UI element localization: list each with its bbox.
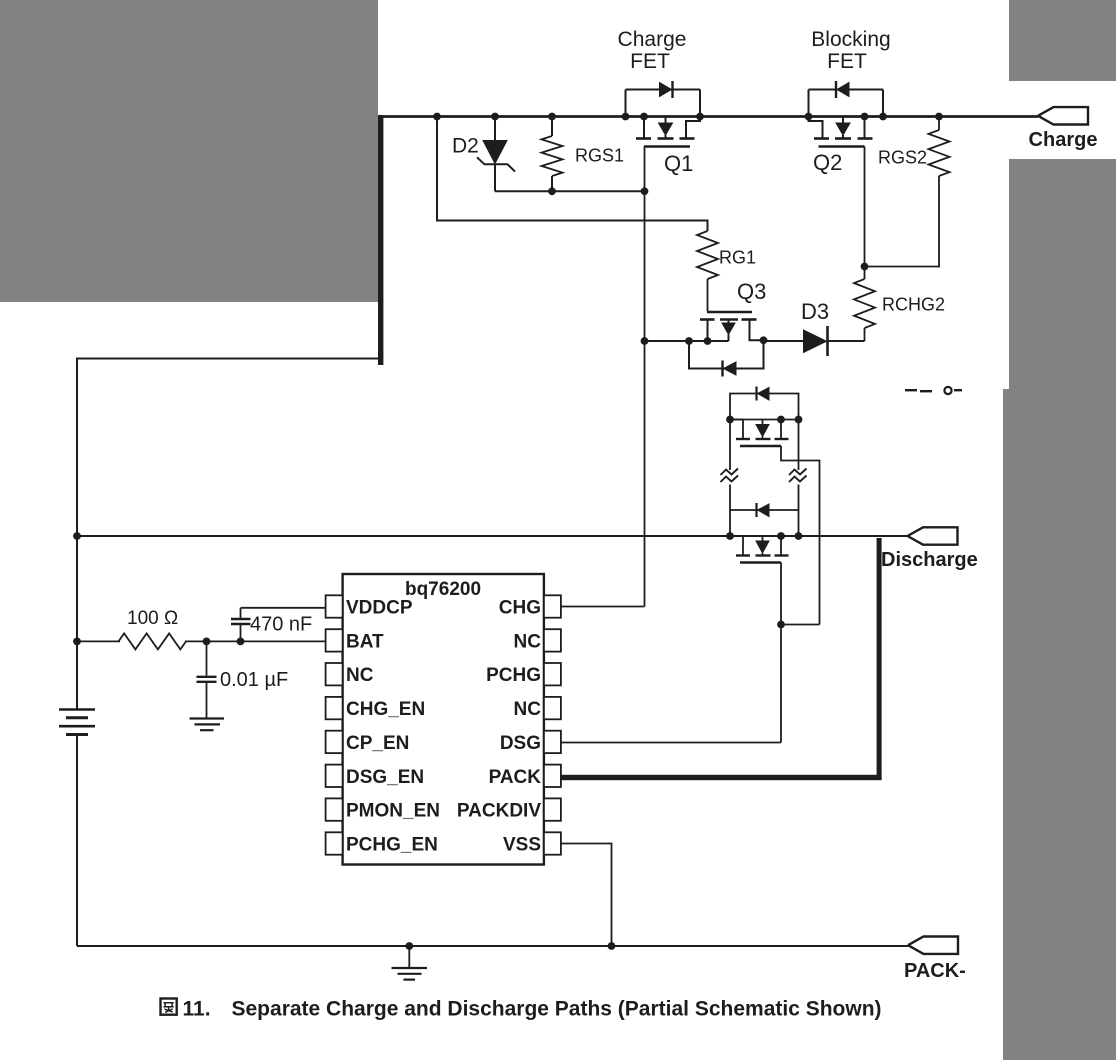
label RCHG2 xyxy=(882,295,945,315)
connector PACK- terminal xyxy=(908,937,958,954)
node VSS on PACK- rail xyxy=(608,942,616,950)
connector Discharge terminal xyxy=(908,527,958,544)
svg-text:RGS2: RGS2 xyxy=(878,148,927,168)
pin NC (right 4) xyxy=(514,697,561,720)
svg-text:11.: 11. xyxy=(183,998,211,1021)
resistor RGS1 xyxy=(542,117,563,192)
pin CP_EN (left 5) xyxy=(326,731,410,754)
svg-text:BAT: BAT xyxy=(346,631,384,652)
svg-text:0.01 µF: 0.01 µF xyxy=(220,669,288,691)
wire DSG gate drop xyxy=(780,625,782,743)
svg-text:Q2: Q2 xyxy=(813,150,842,175)
svg-text:bq76200: bq76200 xyxy=(405,579,481,600)
label 100 Ohm xyxy=(127,608,178,629)
wire D2/RGS1 bottom to Q1 gate xyxy=(495,190,645,192)
wire from feed bar to left rail xyxy=(77,358,381,360)
label D2 xyxy=(452,135,479,158)
pin DSG_EN (left 6) xyxy=(326,765,425,788)
clipped Charge label remnant xyxy=(905,387,962,394)
pin PACK (right 6) xyxy=(489,765,561,788)
node discharge gates junction xyxy=(777,621,785,629)
svg-text:NC: NC xyxy=(346,665,374,686)
resistor RCHG2 xyxy=(854,267,875,342)
pin PCHG_EN (left 8) xyxy=(326,832,438,855)
node left rail BAT tap xyxy=(73,638,81,646)
transistor Q2 (Blocking FET) xyxy=(805,81,887,147)
wire gates junction xyxy=(781,624,820,626)
body diode of lower discharge FET xyxy=(730,503,799,517)
node Q3 rail left xyxy=(641,337,649,345)
pin BAT (left 2) xyxy=(326,629,384,652)
thick PACK wire vertical xyxy=(877,538,882,780)
wire upper-to-lower FET right xyxy=(798,420,800,537)
svg-text:Charge: Charge xyxy=(1029,129,1098,151)
node Q3 left stub xyxy=(704,337,712,345)
svg-text:CHG: CHG xyxy=(499,598,541,619)
svg-text:Blocking: Blocking xyxy=(811,28,890,51)
label D3 xyxy=(801,299,829,324)
ground symbol bottom xyxy=(392,946,428,980)
pin VDDCP (left 1) xyxy=(326,595,413,618)
pin PACKDIV (right 7) xyxy=(457,798,561,821)
zener diode D2 xyxy=(477,117,515,192)
svg-text:FET: FET xyxy=(827,50,867,73)
svg-text:D3: D3 xyxy=(801,299,829,324)
wire Q3 source rail left segment xyxy=(645,340,729,342)
node upper FET rail left xyxy=(726,416,734,424)
node Q3 loop left xyxy=(685,337,693,345)
node RGS1 bottom xyxy=(548,187,556,195)
svg-text:Q1: Q1 xyxy=(664,151,693,176)
transistor Q3 xyxy=(700,312,757,341)
body diode of Q3 xyxy=(689,341,764,377)
pin PCHG (right 3) xyxy=(486,663,561,686)
svg-text:Separate Charge and Discharge: Separate Charge and Discharge Paths (Par… xyxy=(232,998,882,1021)
pin VSS (right 8) xyxy=(503,832,561,855)
pin NC (right 2) xyxy=(514,629,561,652)
wire charge-pump gate drive xyxy=(437,117,708,232)
label Q3 xyxy=(737,279,766,304)
label Charge terminal xyxy=(1029,129,1098,151)
node Q3 loop right xyxy=(760,336,768,344)
svg-text:PACK: PACK xyxy=(489,767,542,788)
wire Q2 gate to RGS2 bottom xyxy=(865,266,941,268)
node upper FET rail mid xyxy=(777,416,785,424)
svg-text:RCHG2: RCHG2 xyxy=(882,295,945,315)
node upper FET rail right xyxy=(795,416,803,424)
transistor upper discharge FET xyxy=(730,420,820,625)
svg-text:Charge: Charge xyxy=(618,28,687,51)
wire VSS pin to ground rail xyxy=(561,844,612,947)
svg-text:RG1: RG1 xyxy=(719,248,756,268)
svg-text:D2: D2 xyxy=(452,135,479,158)
wire DSG pin to gates xyxy=(561,742,781,744)
label Q1 xyxy=(664,151,693,176)
capacitor C2 470nF and VDDCP wire xyxy=(231,608,326,642)
pin CHG_EN (left 4) xyxy=(326,697,426,720)
battery pack symbol xyxy=(59,710,95,735)
resistor RGS2 xyxy=(929,117,950,268)
svg-text:Discharge: Discharge xyxy=(881,549,978,571)
label bq76200 xyxy=(405,579,481,600)
connector Charge terminal xyxy=(1038,107,1088,124)
pin CHG (right 1) xyxy=(499,595,561,618)
svg-text:PACKDIV: PACKDIV xyxy=(457,801,541,822)
wire Q3 source rail right segment xyxy=(750,320,805,342)
svg-text:NC: NC xyxy=(514,699,542,720)
wire top rail BAT+ to Charge xyxy=(382,115,1038,118)
svg-text:VSS: VSS xyxy=(503,834,541,855)
label 0.01uF xyxy=(220,669,288,691)
wire left rail vertical upper xyxy=(76,358,78,710)
node lower FET rail mid xyxy=(777,532,785,540)
svg-text:PMON_EN: PMON_EN xyxy=(346,801,440,822)
gray page background strip right top xyxy=(1009,0,1116,81)
gray page background strip right middle xyxy=(1009,159,1116,390)
wire upper-to-lower FET left xyxy=(729,420,731,537)
node lower FET rail right xyxy=(795,532,803,540)
pin PMON_EN (left 7) xyxy=(326,798,440,821)
thick battery positive feed bar xyxy=(378,115,383,365)
wire Discharge net xyxy=(77,535,908,537)
ground under C1 xyxy=(190,719,225,731)
svg-text:100 Ω: 100 Ω xyxy=(127,608,178,629)
body diode of upper discharge FET xyxy=(730,387,799,420)
node Q2 gate / RCHG2 junction xyxy=(861,263,869,271)
wire BAT feed xyxy=(77,640,326,642)
svg-text:DSG_EN: DSG_EN xyxy=(346,767,424,788)
node Discharge left rail xyxy=(73,532,81,540)
node rail RGS1 top xyxy=(548,113,556,121)
label Q2 xyxy=(813,150,842,175)
wire-break mark left xyxy=(721,469,739,483)
label Discharge terminal xyxy=(881,549,978,571)
svg-text:DSG: DSG xyxy=(500,733,541,754)
label RGS1 xyxy=(575,146,624,166)
svg-text:CHG_EN: CHG_EN xyxy=(346,699,425,720)
node ground tap on PACK- rail xyxy=(405,942,413,950)
label 470nF xyxy=(250,614,312,636)
wire Q2 gate lead vertical xyxy=(864,147,866,267)
caption figure 11 xyxy=(161,998,882,1021)
svg-text:VDDCP: VDDCP xyxy=(346,598,413,619)
wire Q1 gate lead vertical xyxy=(644,147,646,607)
svg-text:PCHG_EN: PCHG_EN xyxy=(346,834,438,855)
IC U1 bq76200 body xyxy=(343,574,544,865)
label Charge FET xyxy=(618,28,687,73)
resistor 100 Ohm xyxy=(119,633,187,649)
gray page background strip right bottom xyxy=(1003,389,1116,1060)
node RC junction xyxy=(203,638,211,646)
svg-text:RGS1: RGS1 xyxy=(575,146,624,166)
pin NC (left 3) xyxy=(326,663,374,686)
resistor RG1 xyxy=(697,231,718,311)
label PACK- terminal xyxy=(904,960,966,982)
node rail RGS2 top xyxy=(935,113,943,121)
node Q1 gate junction xyxy=(641,187,649,195)
svg-text:Q3: Q3 xyxy=(737,279,766,304)
gray page background block top-left xyxy=(0,0,378,302)
node 470nF junction xyxy=(237,638,245,646)
wire CHG pin to Q3 xyxy=(561,606,645,608)
svg-text:NC: NC xyxy=(514,631,542,652)
svg-text:470 nF: 470 nF xyxy=(250,614,312,636)
diode D3 xyxy=(804,326,865,356)
thick PACK wire horizontal xyxy=(554,775,882,780)
transistor Q1 (Charge FET) xyxy=(622,81,704,147)
capacitor C1 0.01uF xyxy=(197,641,217,718)
svg-text:PCHG: PCHG xyxy=(486,665,541,686)
transistor lower discharge FET xyxy=(730,536,789,625)
label Blocking FET xyxy=(811,28,890,73)
label RG1 xyxy=(719,248,756,268)
wire left rail vertical lower xyxy=(76,735,78,947)
label RGS2 xyxy=(878,148,927,168)
node rail-D2 left tap xyxy=(433,113,441,121)
svg-text:FET: FET xyxy=(630,50,670,73)
node lower FET rail left xyxy=(726,532,734,540)
svg-text:CP_EN: CP_EN xyxy=(346,733,409,754)
pin DSG (right 5) xyxy=(500,731,561,754)
wire-break mark right xyxy=(789,469,807,483)
svg-text:PACK-: PACK- xyxy=(904,960,966,982)
wire bottom PACK- rail xyxy=(77,945,908,947)
node rail D2 anode xyxy=(491,113,499,121)
